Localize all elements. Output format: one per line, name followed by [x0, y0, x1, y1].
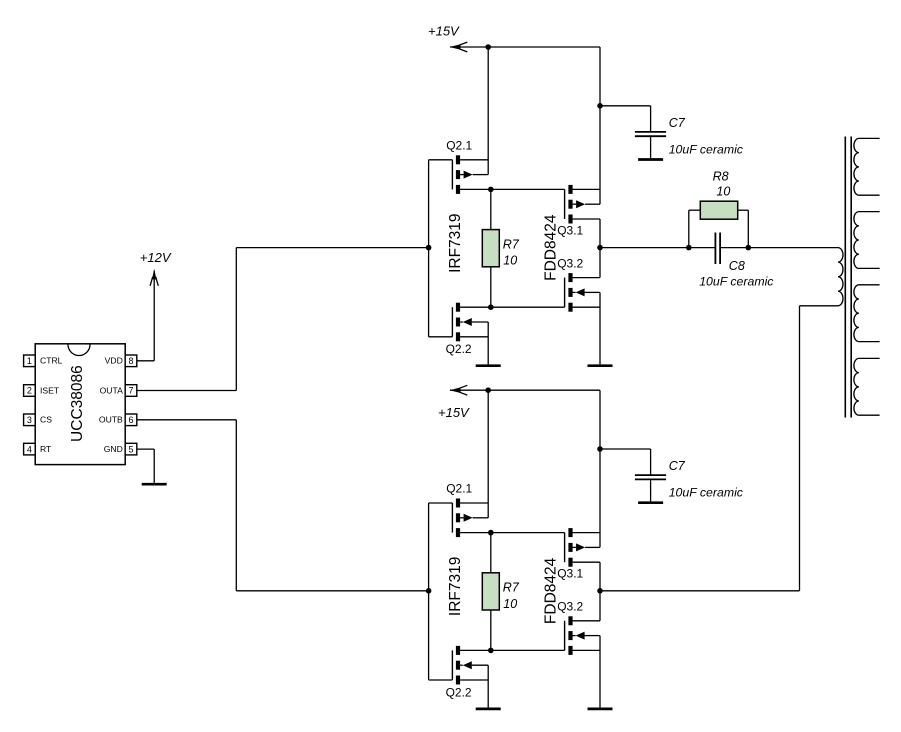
svg-text:Q2.1: Q2.1 [446, 482, 472, 496]
svg-text:Q3.2: Q3.2 [557, 600, 583, 614]
pin 4 box [24, 443, 36, 455]
svg-text:IRF7319: IRF7319 [447, 557, 464, 616]
wire Q3.1 drain (stage B) [573, 561, 600, 563]
svg-text:C7: C7 [669, 116, 686, 130]
wire R7 bottom lead (stage A) [490, 267, 492, 307]
junction Q2.2 drain node / R7 bottom (stage A) [488, 304, 494, 310]
transistor Q3.1 FDD8424 P-ch (stage B) [565, 528, 600, 567]
transistor Q2.2 IRF7319 N-ch (stage B) [452, 646, 488, 685]
wire R7 top lead (stage A) [490, 189, 492, 229]
wire C7 to ground (stage A) [650, 136, 652, 159]
svg-text:10: 10 [503, 597, 517, 611]
svg-text:7: 7 [128, 386, 133, 396]
wire Q3.2 drain (stage A) [573, 277, 600, 279]
junction Q2 drain node / R7 top (stage B) [488, 530, 494, 536]
wire gate bus vertical (stage B) [428, 503, 430, 680]
junction output node (stage A) [597, 245, 603, 251]
wire +15V drop to Q3.1 (stage A) [599, 47, 601, 204]
ground Q2.2 (stage A) [476, 364, 501, 367]
wire Q3.2 drain (stage B) [573, 620, 600, 622]
transistor Q3.1 FDD8424 P-ch (stage A) [565, 185, 600, 224]
wire gate bus vertical (stage A) [428, 160, 430, 337]
svg-text:FDD8424: FDD8424 [542, 557, 559, 624]
svg-text:R7: R7 [503, 237, 520, 251]
svg-text:10uF ceramic: 10uF ceramic [669, 142, 744, 156]
junction OUTA / gate bus A [426, 245, 432, 251]
resistor R7 (stage A) [482, 230, 499, 267]
svg-text:Q2.2: Q2.2 [446, 342, 472, 356]
pin 3 box [24, 414, 36, 426]
pin 2 box [24, 385, 36, 397]
svg-text:10uF ceramic: 10uF ceramic [669, 486, 744, 500]
junction output node (stage B) [597, 588, 603, 594]
svg-text:OUTB: OUTB [99, 415, 123, 425]
transistor Q2.1 IRF7319 P-ch (stage B) [452, 499, 488, 538]
pin 8 box [125, 355, 137, 367]
junction +15V / Q2.1 source (stage A) [485, 44, 491, 50]
wire R7 bottom lead (stage B) [490, 610, 492, 650]
svg-text:R8: R8 [713, 169, 729, 183]
wire Q2.1 gate lead (stage A) [429, 159, 453, 161]
transistor Q2.1 IRF7319 P-ch (stage A) [452, 155, 488, 194]
transistor Q3.2 FDD8424 N-ch (stage B) [565, 616, 600, 655]
svg-text:2: 2 [27, 386, 32, 396]
svg-text:R7: R7 [503, 581, 520, 595]
wire C7 to ground (stage B) [650, 479, 652, 502]
wire Q3.2 source to ground (stage A) [599, 292, 601, 364]
ground Q3.2 (stage B) [588, 708, 613, 711]
transistor Q2.2 IRF7319 N-ch (stage A) [452, 303, 488, 342]
svg-text:C7: C7 [669, 459, 686, 473]
junction snubber left [686, 245, 692, 251]
wire C7 branch (stage B) [600, 448, 651, 450]
svg-text:5: 5 [128, 444, 133, 454]
junction snubber right [746, 245, 752, 251]
ground IC GND [142, 483, 167, 486]
wire GND pin 5 [137, 448, 154, 450]
svg-text:+15V: +15V [428, 24, 460, 39]
svg-text:UCC38086: UCC38086 [69, 365, 86, 442]
transformer T1 secondary winding 3 [854, 285, 880, 342]
svg-text:FDD8424: FDD8424 [542, 214, 559, 281]
ground C7 (stage B) [638, 501, 663, 504]
junction +15V / C7 (stage A) [597, 103, 603, 109]
wire Q2.1 gate lead (stage B) [429, 502, 453, 504]
wire R8 left lead [688, 210, 690, 247]
power +12V arrow [150, 269, 158, 286]
svg-text:VDD: VDD [105, 356, 123, 366]
svg-text:Q3.2: Q3.2 [557, 256, 583, 270]
svg-text:8: 8 [128, 356, 133, 366]
svg-text:10: 10 [503, 254, 517, 268]
wire Q2.2 gate lead (stage B) [429, 679, 453, 681]
wire Q2.2 source to ground (stage B) [487, 665, 489, 707]
junction +15V / C7 (stage B) [597, 446, 603, 452]
transistor Q3.2 FDD8424 N-ch (stage A) [565, 273, 600, 312]
junction Q2.2 drain node / R7 bottom (stage B) [488, 648, 494, 654]
wire Q2.2 drain to node (stage B) [460, 649, 564, 651]
svg-text:IRF7319: IRF7319 [447, 213, 464, 272]
svg-text:6: 6 [128, 415, 133, 425]
wire Q2.2 source to ground (stage A) [487, 322, 489, 364]
wire R7 top lead (stage B) [490, 533, 492, 573]
svg-text:Q2.1: Q2.1 [446, 138, 472, 152]
svg-text:GND: GND [104, 444, 123, 454]
wire output A to snubber [600, 247, 689, 249]
svg-text:Q2.2: Q2.2 [446, 685, 472, 699]
wire +15V rail (stage A) [450, 46, 600, 48]
svg-text:1: 1 [27, 356, 32, 366]
junction +15V / Q2.1 source (stage B) [485, 387, 491, 393]
wire output B to primary return [600, 590, 800, 592]
ground Q3.2 (stage A) [588, 364, 613, 367]
transformer T1 core [845, 137, 851, 418]
pin 1 box [24, 355, 36, 367]
svg-text:+15V: +15V [438, 405, 470, 420]
pin 7 box [125, 385, 137, 397]
transformer T1 primary winding [838, 248, 843, 306]
pin 6 box [125, 414, 137, 426]
wire Q2.1 source tie (stage B) [487, 390, 489, 518]
pin 5 box [125, 443, 137, 455]
svg-text:4: 4 [27, 444, 32, 454]
svg-text:ISET: ISET [40, 385, 60, 395]
capacitor C7 (stage A) [635, 132, 666, 136]
ground Q2.2 (stage B) [476, 708, 501, 711]
wire Q2.1 source tie (stage A) [487, 47, 489, 175]
svg-text:Q3.1: Q3.1 [557, 223, 583, 237]
svg-text:OUTA: OUTA [100, 385, 124, 395]
capacitor C7 (stage B) [635, 475, 666, 479]
wire primary return [800, 305, 839, 307]
svg-text:C8: C8 [729, 259, 745, 273]
power +15V arrow (stage B) [450, 385, 468, 395]
svg-text:10uF ceramic: 10uF ceramic [699, 275, 774, 289]
capacitor C8 [715, 233, 720, 265]
svg-text:RT: RT [40, 444, 52, 454]
ground C7 (stage A) [638, 158, 663, 161]
svg-text:10: 10 [716, 185, 730, 199]
wire Q3.2 source to ground (stage B) [599, 636, 601, 708]
wire C8 left lead [689, 247, 715, 249]
transformer T1 secondary winding 2 [854, 212, 880, 269]
junction Q2 drain node / R7 top (stage A) [488, 187, 494, 193]
wire C7 branch (stage A) [600, 105, 651, 107]
wire Q2.2 gate lead (stage A) [429, 336, 453, 338]
wire snubber to transformer primary [748, 247, 838, 249]
svg-text:3: 3 [27, 415, 32, 425]
wire R8 right lead [738, 209, 749, 211]
wire Q3.1 drain (stage A) [573, 218, 600, 220]
wire OUTA pin 7 to gate bus A [137, 390, 237, 392]
wire Q2.1 drain to node (stage B) [460, 532, 564, 534]
svg-text:Q3.1: Q3.1 [557, 567, 583, 581]
wire OUTB pin 6 to gate bus B [137, 419, 237, 421]
wire +15V drop to Q3.1 (stage B) [599, 390, 601, 547]
resistor R7 (stage B) [482, 573, 499, 610]
transformer T1 secondary winding 1 [854, 138, 880, 195]
junction OUTB / gate bus B [426, 588, 432, 594]
wire +15V rail (stage B) [450, 389, 600, 391]
power +15V arrow (stage A) [450, 42, 468, 52]
wire VDD pin 8 to +12V [137, 360, 154, 362]
resistor R8 [700, 201, 737, 219]
svg-text:CS: CS [40, 415, 52, 425]
svg-text:CTRL: CTRL [40, 356, 63, 366]
wire C8 right lead [721, 247, 748, 249]
svg-text:+12V: +12V [140, 250, 172, 265]
transformer T1 secondary winding 4 [854, 358, 880, 415]
wire Q2.1 drain to node (stage A) [460, 188, 564, 190]
wire Q2.2 drain to node (stage A) [460, 306, 564, 308]
op-amp/controller IC U1 UCC38086 body [35, 344, 125, 465]
